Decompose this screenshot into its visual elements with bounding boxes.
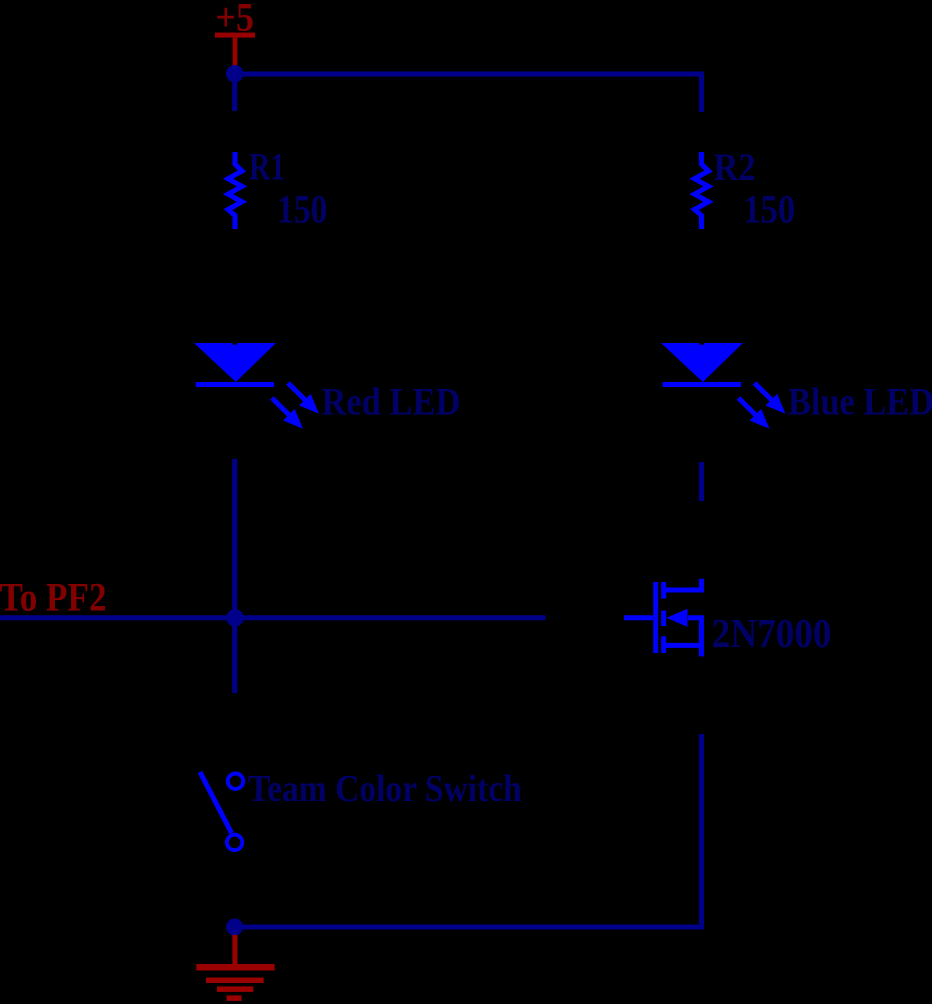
resistor R2 bbox=[695, 152, 709, 229]
node C junction dot (ground) bbox=[226, 919, 243, 936]
diode D2 blue LED triangle bbox=[661, 343, 743, 387]
svg-text:R1: R1 bbox=[249, 146, 285, 189]
svg-text:Team Color Switch: Team Color Switch bbox=[248, 768, 522, 810]
LED D2 light arrows bbox=[739, 383, 786, 429]
wire right column LED to MOSFET drain bbox=[699, 462, 704, 501]
transistor Q1 gate bar bbox=[653, 582, 658, 653]
node A junction dot (top, +5 rail) bbox=[226, 65, 243, 82]
power +5 rail symbol bbox=[215, 33, 255, 67]
svg-text:150: 150 bbox=[277, 186, 328, 231]
label To PF2 bbox=[0, 575, 107, 620]
power +5 label bbox=[216, 0, 255, 40]
wire right vertical from top rail to R2 bbox=[699, 72, 704, 113]
node B junction dot (PF2 net) bbox=[226, 609, 243, 626]
transistor Q1 source lead bbox=[664, 615, 702, 656]
label Team Color Switch bbox=[248, 768, 522, 810]
switch S1 top contact bbox=[228, 774, 243, 789]
label Blue LED bbox=[788, 381, 932, 424]
svg-text:R2: R2 bbox=[714, 146, 756, 189]
svg-text:150: 150 bbox=[743, 187, 795, 232]
transistor Q1 channel segments bbox=[661, 582, 666, 653]
wire MOSFET source down bbox=[699, 734, 704, 927]
svg-text:2N7000: 2N7000 bbox=[712, 610, 832, 656]
wire left column LED to switch node bbox=[232, 459, 237, 693]
LED D1 light arrows bbox=[272, 383, 319, 429]
resistor R1 bbox=[228, 152, 242, 229]
label R2 bbox=[714, 146, 756, 189]
label 2N7000 bbox=[712, 610, 832, 656]
value 150 (R1) bbox=[277, 186, 328, 231]
value 150 (R2) bbox=[743, 187, 795, 232]
wire left vertical below top node bbox=[232, 74, 237, 111]
label Red LED bbox=[322, 381, 461, 424]
transistor Q1 body arrow bbox=[667, 609, 702, 627]
label R1 bbox=[249, 146, 285, 189]
switch S1 lever bbox=[200, 772, 232, 833]
transistor Q1 2N7000 gate lead bbox=[624, 615, 653, 620]
wire top rail horizontal bbox=[235, 72, 702, 77]
wire bottom rail bbox=[235, 925, 704, 930]
svg-text:Blue LED: Blue LED bbox=[788, 381, 932, 424]
diode D1 red LED triangle bbox=[194, 343, 276, 387]
transistor Q1 drain lead bbox=[664, 579, 702, 590]
svg-text:Red LED: Red LED bbox=[322, 381, 461, 424]
wire To PF2 horizontal bbox=[0, 615, 546, 620]
ground symbol bbox=[196, 964, 274, 1001]
svg-text:To PF2: To PF2 bbox=[0, 575, 107, 620]
switch S1 bottom contact bbox=[227, 835, 242, 850]
ground stub bbox=[232, 935, 237, 964]
